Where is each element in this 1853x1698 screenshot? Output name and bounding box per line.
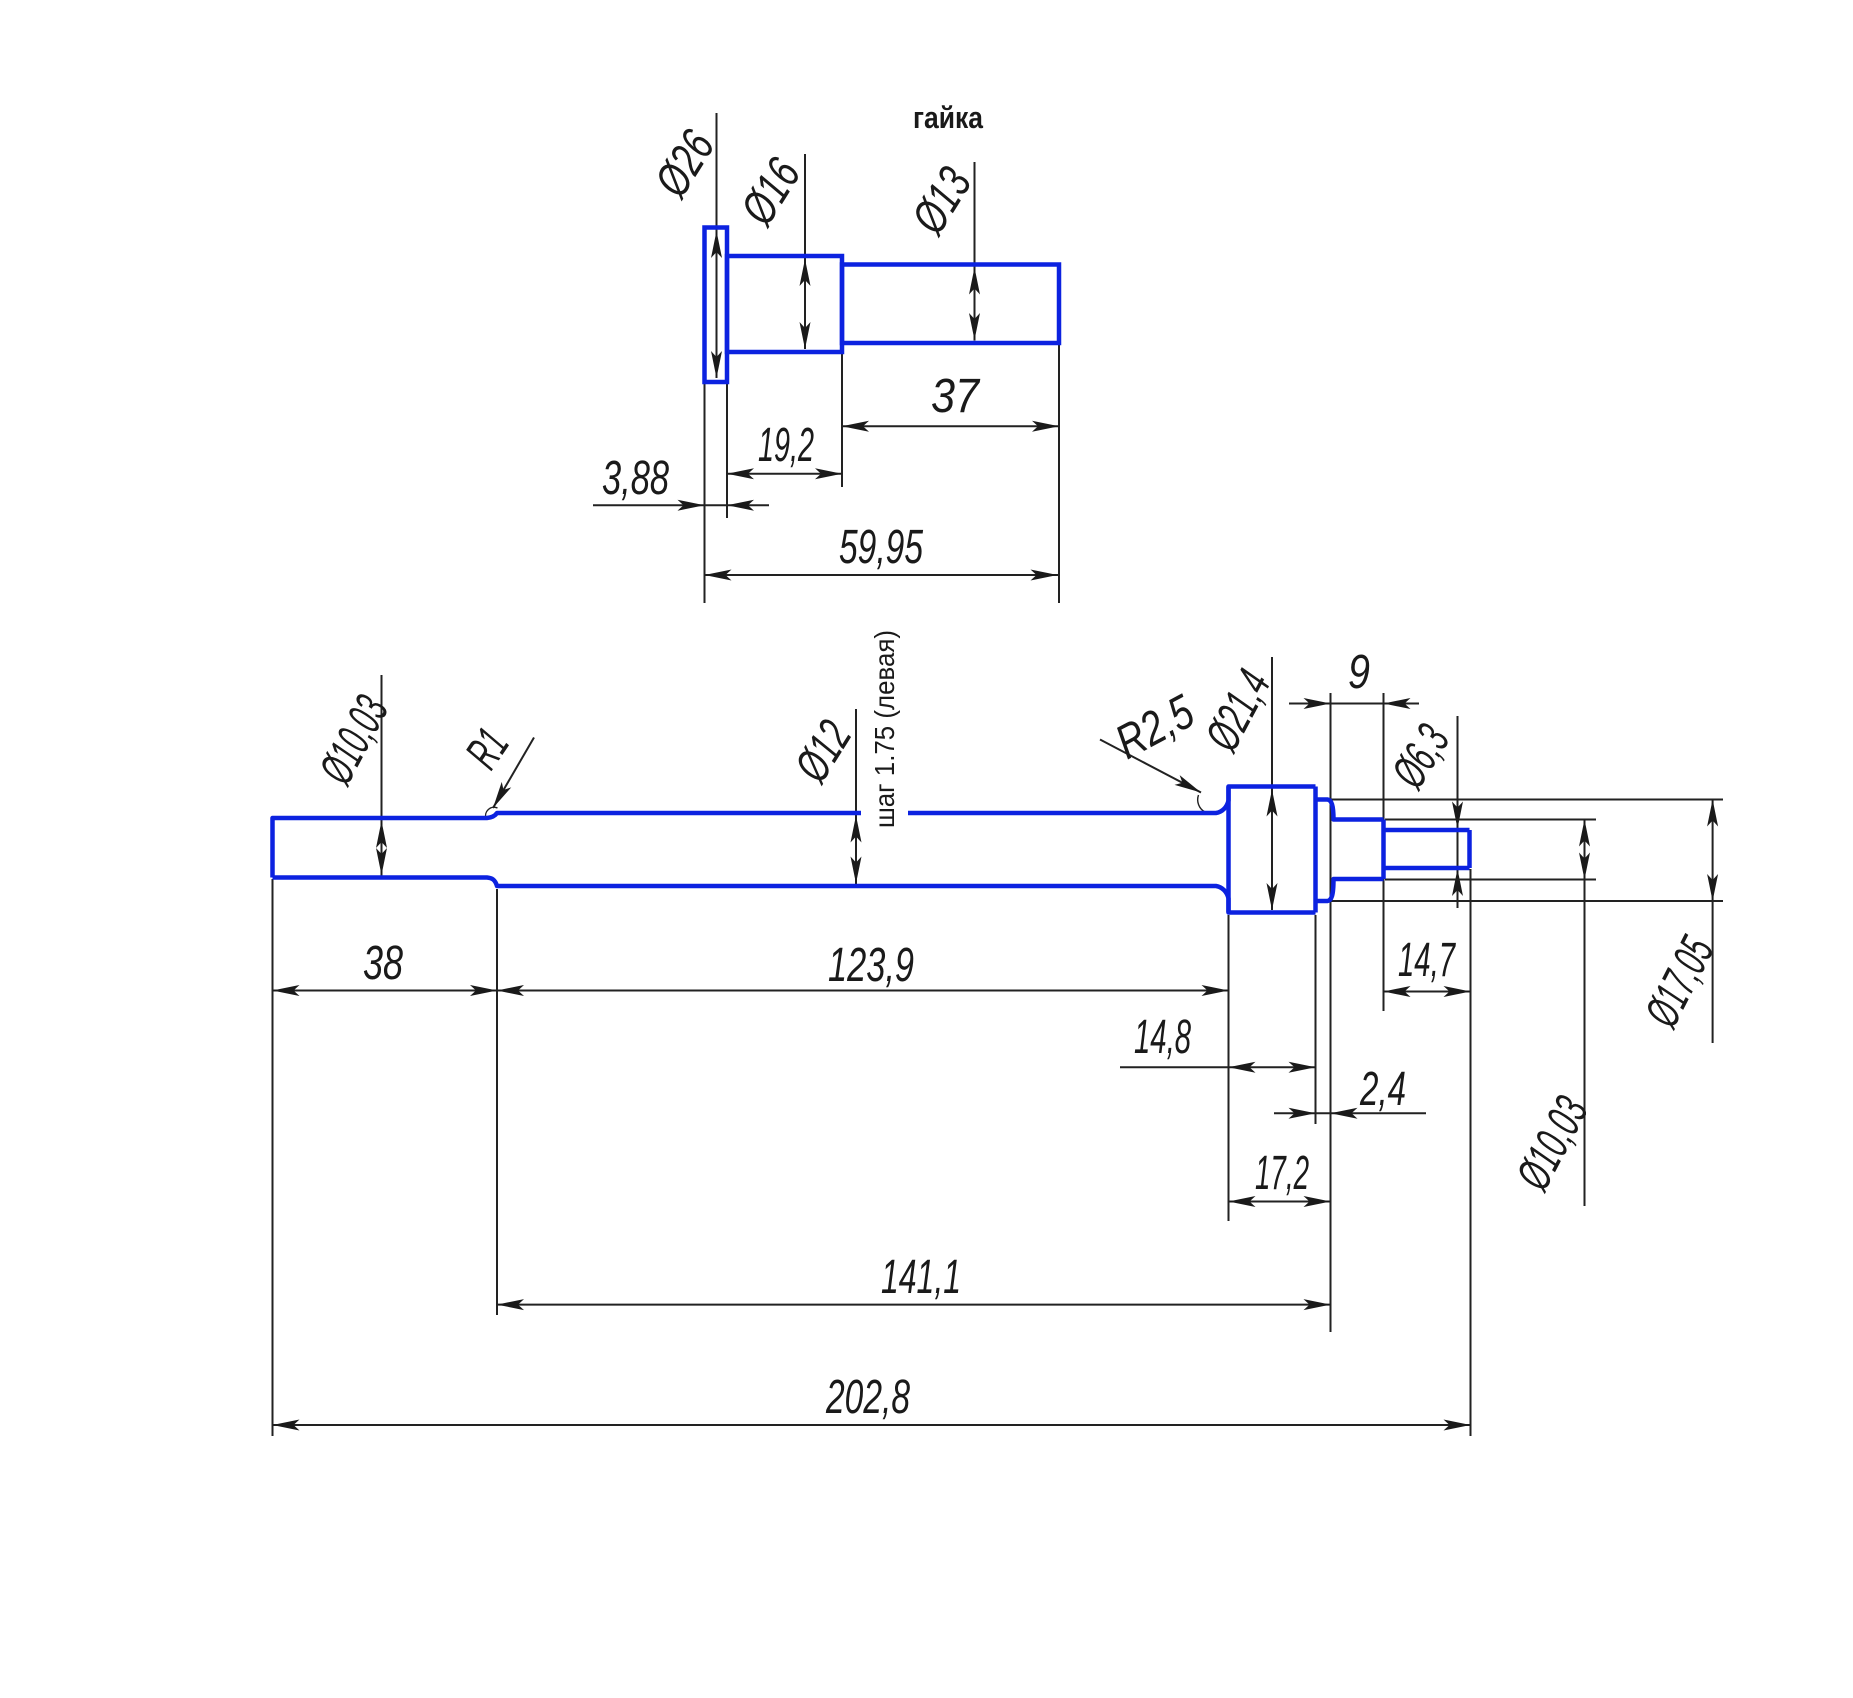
dimension line φ12 <box>855 709 857 884</box>
svg-text:14,7: 14,7 <box>1398 934 1456 987</box>
svg-text:шаг 1.75 (левая): шаг 1.75 (левая) <box>869 630 900 828</box>
extension line φ17,05 bottom (y=901) <box>1330 900 1723 902</box>
extension line collar right (x=1330.5) <box>1330 693 1332 1332</box>
arrow φ16 up <box>800 259 811 286</box>
leader R1 <box>493 738 534 809</box>
dimension 14,7 <box>1384 991 1471 993</box>
svg-text:гайка: гайка <box>913 100 984 135</box>
nut middle cylinder outline <box>727 256 842 352</box>
dimension 17,2 <box>1229 1201 1331 1203</box>
dimension line φ10,03 right <box>1584 820 1586 1207</box>
svg-text:9: 9 <box>1348 646 1370 699</box>
shaft step face (x=1383.5) <box>1381 820 1386 880</box>
extension line step face (x=1383.5) <box>1383 693 1385 1011</box>
svg-text:17,2: 17,2 <box>1255 1147 1309 1200</box>
dimension line φ10,03 left <box>381 675 383 876</box>
extension line nut left (x=704.5) <box>704 382 706 603</box>
extension line shaft step (x=497) <box>496 889 498 1315</box>
extension line nut flange right (x=727) <box>726 382 728 518</box>
dimension line φ16 <box>804 154 806 349</box>
extension line shaft right end (x=1470.5) <box>1470 869 1472 1436</box>
extension line φ10,03 bottom (y=879.5) <box>1385 879 1596 881</box>
shaft block right face <box>1313 787 1318 913</box>
leader R2,5 <box>1100 740 1201 793</box>
svg-text:37: 37 <box>931 370 981 423</box>
arrow φ16 down <box>800 322 811 349</box>
dimension line φ6,3 <box>1457 716 1459 908</box>
dimension 38 <box>273 990 498 992</box>
shaft right end face <box>1467 830 1472 868</box>
nut flange outline <box>705 228 728 383</box>
svg-text:19,2: 19,2 <box>758 419 814 472</box>
svg-text:38: 38 <box>363 937 403 990</box>
dimension line φ26 <box>716 113 718 378</box>
shaft outline top profile <box>273 787 1470 878</box>
shaft block left face <box>1226 787 1231 913</box>
dimension line φ17,05 <box>1712 800 1714 1044</box>
extension line shaft left end (x=272.5) <box>272 879 274 1436</box>
svg-text:2,4: 2,4 <box>1359 1063 1406 1116</box>
dimension 14,8 <box>1120 1066 1316 1068</box>
svg-text:14,8: 14,8 <box>1134 1011 1191 1064</box>
arrow φ26 up <box>711 231 722 258</box>
dimension 9 <box>1289 703 1419 705</box>
dimension 19,2 <box>727 473 842 475</box>
dimension 59,95 <box>705 574 1060 576</box>
svg-text:202,8: 202,8 <box>825 1371 910 1424</box>
arrow φ26 down <box>711 351 722 378</box>
dimension 3,88 <box>593 504 769 506</box>
extension line φ17,05 top (y=799.5) <box>1330 799 1723 801</box>
nut long cylinder outline <box>842 265 1059 344</box>
dimension 123,9 <box>497 990 1229 992</box>
svg-text:3,88: 3,88 <box>602 452 669 505</box>
extension line nut mid right (x=842) <box>841 352 843 487</box>
dimension 202,8 <box>273 1424 1471 1426</box>
dimension 141,1 <box>497 1304 1331 1306</box>
dimension 37 <box>842 425 1059 427</box>
extension line block left (x=1228.5) <box>1228 915 1230 1221</box>
extension line φ10,03 top (y=819.5) <box>1385 819 1596 821</box>
svg-text:141,1: 141,1 <box>881 1251 961 1304</box>
svg-text:59,95: 59,95 <box>839 521 923 574</box>
shaft outline bottom profile <box>273 868 1470 913</box>
dimension line φ13 <box>974 162 976 341</box>
arrow φ13 down <box>969 313 980 340</box>
dimension 2,4 <box>1274 1112 1426 1114</box>
svg-text:123,9: 123,9 <box>828 939 914 992</box>
extension line block right (x=1315.5) <box>1315 915 1317 1124</box>
dimension line φ21,4 <box>1271 657 1273 910</box>
extension line nut right (x=1059) <box>1058 343 1060 603</box>
arrow φ13 up <box>969 268 980 295</box>
